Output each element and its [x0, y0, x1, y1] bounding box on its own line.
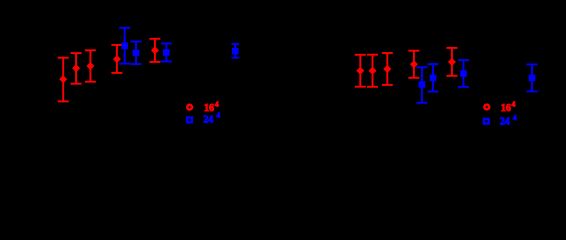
errorbar blue B2 (left panel, 1st blue point) [119, 28, 130, 64]
legend left: label 24^4 [203, 110, 220, 125]
errorbar blue C2 (left panel, 3rd blue point) [161, 44, 172, 62]
legend left: red circle marker [187, 105, 192, 110]
legend right: label 16^4 [501, 99, 516, 113]
legend right: red circle marker [484, 105, 489, 110]
errorbar red D1 (right panel, 1st red point) [355, 55, 366, 87]
errorbar red C1 (left panel, 5th red point) [149, 39, 160, 62]
legend left: blue square marker [187, 118, 192, 123]
errorbar red B1 (left panel, 4th red point) [111, 45, 122, 73]
errorbar red A3 (left panel, 3rd red point) [85, 50, 96, 81]
errorbar blue H1 (right panel, isolated blue point) [527, 64, 538, 91]
legend right: blue square marker [484, 119, 489, 124]
svg-text:4: 4 [512, 99, 516, 108]
svg-text:24: 24 [500, 116, 510, 127]
legend right: label 24^4 [500, 113, 517, 127]
svg-text:16: 16 [501, 103, 511, 114]
errorbar red F1 (right panel, 5th red point) [446, 48, 457, 76]
errorbar red D3 (right panel, 3rd red point) [382, 53, 393, 85]
errorbar red A1 (left panel, 1st red point) [58, 58, 69, 102]
svg-text:16: 16 [204, 103, 214, 114]
errorbar red D2 (right panel, 2nd red point) [367, 55, 378, 87]
errorbar red A2 (left panel, 2nd red point) [71, 53, 82, 84]
errorbar blue G1 (left panel, isolated blue point) [231, 44, 239, 58]
svg-text:24: 24 [203, 115, 213, 126]
errorbar red E1 (right panel, 4th red point) [408, 51, 419, 78]
errorbar blue F2 (right panel, 3rd blue point) [458, 60, 469, 87]
legend left: label 16^4 [204, 100, 219, 114]
svg-text:4: 4 [513, 113, 517, 122]
errorbar blue E2 (right panel, 1st blue point) [416, 67, 427, 103]
errorbar blue B3 (left panel, 2nd blue point) [131, 42, 142, 65]
svg-text:4: 4 [215, 100, 219, 109]
svg-text:4: 4 [216, 110, 220, 119]
errorbar blue E3 (right panel, 2nd blue point) [428, 64, 439, 92]
